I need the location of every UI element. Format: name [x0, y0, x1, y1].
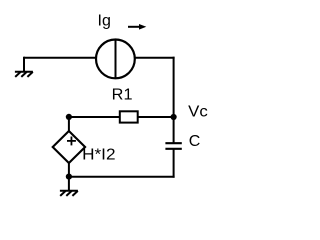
- svg-text:Ig: Ig: [98, 13, 111, 30]
- ground (top-left): [15, 72, 33, 77]
- wire ground stub top-left: [23, 57, 25, 72]
- wire right vertical top: [173, 57, 175, 117]
- wire diamond bottom to node: [68, 163, 70, 177]
- node Vc junction dot: [171, 114, 177, 120]
- wire node to capacitor: [173, 117, 175, 143]
- svg-text:R1: R1: [112, 87, 133, 104]
- dependent source H*I2 (diamond): [53, 131, 85, 163]
- wire node to resistor: [69, 116, 120, 118]
- svg-text:C: C: [189, 133, 201, 150]
- wire capacitor to bottom corner: [173, 149, 175, 178]
- current direction arrow: [128, 24, 146, 30]
- capacitor C: [165, 143, 181, 149]
- resistor R1: [120, 111, 138, 122]
- wire top-left horizontal: [24, 57, 97, 59]
- wire ground stub bottom: [68, 177, 70, 191]
- wire bottom horizontal: [69, 176, 175, 178]
- wire circle to top-right corner: [135, 57, 175, 59]
- wire node to diamond top: [68, 117, 70, 132]
- ground (bottom): [60, 191, 78, 196]
- wire resistor to node Vc: [138, 116, 174, 118]
- node dot bottom: [66, 174, 72, 180]
- svg-text:Vc: Vc: [188, 103, 208, 120]
- node dot top: [66, 114, 72, 120]
- current source Ig: [96, 40, 135, 79]
- svg-text:H*I2: H*I2: [82, 147, 116, 164]
